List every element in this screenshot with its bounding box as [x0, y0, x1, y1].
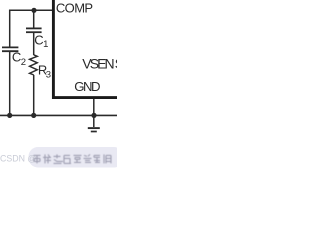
pin label VSEN (clipped VSENSE)	[82, 55, 124, 71]
capacitor C2	[2, 47, 18, 51]
resistor R3	[30, 55, 38, 75]
capacitor C1	[26, 28, 42, 32]
label C1	[34, 32, 48, 50]
svg-text:S: S	[115, 55, 117, 71]
wire: top horizontal net to COMP pin	[9, 9, 53, 11]
svg-text:COMP: COMP	[56, 1, 93, 16]
svg-text:3: 3	[46, 70, 51, 81]
wire: bottom horizontal ground net	[0, 114, 117, 116]
IC U1 outline (left and bottom edges)	[53, 0, 117, 98]
wire: left vertical from corner down to C2 top plate	[9, 10, 11, 47]
svg-text:1: 1	[43, 39, 48, 50]
watermark pseudo-CJK glyphs	[34, 154, 112, 163]
junction: COMP node dot	[31, 8, 36, 13]
label C2	[12, 50, 26, 68]
junction: GND pin on ground net	[91, 113, 96, 118]
label R3	[38, 62, 51, 80]
svg-text:CSDN @: CSDN @	[0, 154, 36, 164]
svg-text:2: 2	[21, 57, 26, 68]
wire: vertical from COMP node to C1 top plate	[33, 10, 35, 28]
wire: GND pin stub down through ground net	[93, 99, 95, 127]
svg-text:VSEN: VSEN	[82, 55, 114, 71]
wire: vertical from C1 bottom plate to R3	[33, 32, 35, 55]
ground symbol	[88, 128, 100, 131]
junction: R3 branch on ground net	[31, 113, 36, 118]
wire: left vertical from C2 bottom plate to bottom net	[9, 51, 11, 115]
junction: C2 branch on ground net	[7, 113, 12, 118]
svg-text:GND: GND	[74, 79, 100, 94]
wire: vertical from R3 to bottom net	[33, 75, 35, 116]
watermark band	[29, 147, 124, 168]
